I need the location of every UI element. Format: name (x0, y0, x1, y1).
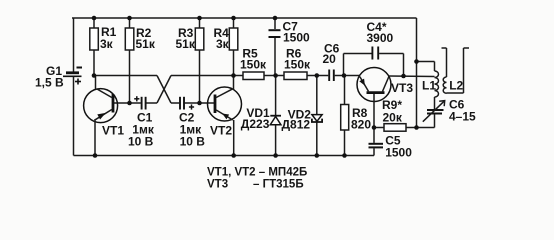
svg-text:L2: L2 (449, 79, 463, 93)
wire cross to C2 (171, 102, 179, 104)
node rail R2 (127, 16, 132, 21)
svg-text:1,5 В: 1,5 В (35, 76, 64, 90)
svg-text:150к: 150к (284, 58, 311, 72)
svg-text:Д812: Д812 (282, 117, 311, 131)
node rail R4 (231, 16, 236, 21)
svg-text:51к: 51к (176, 37, 196, 51)
wire bus to VT2 collector (171, 75, 243, 77)
svg-text:10 В: 10 В (128, 135, 154, 149)
variable capacitor C6 (417, 98, 477, 128)
svg-text:VT1: VT1 (102, 124, 124, 138)
svg-text:1500: 1500 (385, 146, 412, 160)
svg-text:820: 820 (351, 118, 371, 132)
diode VD2 zener (282, 76, 323, 156)
capacitor C7 (269, 18, 311, 76)
battery G1 (35, 64, 82, 90)
svg-text:VT3: VT3 (391, 81, 413, 95)
node VT2 base (197, 101, 202, 106)
capacitor C6 coupling (323, 42, 340, 82)
node VT1 collector (92, 73, 97, 78)
wire left battery column (73, 18, 75, 156)
wire VT1 base (113, 102, 141, 104)
transistor VT1 (84, 76, 125, 156)
capacitor C2 (179, 97, 205, 149)
wire R6 to C6 (307, 75, 328, 77)
node VT1 base (127, 101, 132, 106)
resistor R1 (90, 18, 117, 76)
node rail VD1 (273, 153, 278, 158)
capacitor C5 (369, 128, 413, 160)
resistor R6 (284, 47, 311, 80)
resistor R9 (374, 98, 417, 131)
node rail R1 (92, 16, 97, 21)
svg-text:VT1, VT2 – МП42Б: VT1, VT2 – МП42Б (207, 167, 307, 179)
svg-text:3к: 3к (100, 37, 114, 51)
node VT3 emitter (342, 73, 347, 78)
note transistor types (207, 167, 307, 191)
transistor VT2 (208, 76, 242, 156)
node rail VT2 emitter (231, 153, 236, 158)
svg-text:VT2: VT2 (210, 124, 232, 138)
resistor R2 (125, 18, 156, 103)
svg-text:VT3: VT3 (207, 179, 228, 191)
svg-text:L1: L1 (422, 79, 436, 93)
wire right rail descent (416, 18, 418, 128)
inductor L2 (442, 48, 470, 93)
svg-text:20к: 20к (383, 111, 403, 125)
resistor R5 (240, 47, 267, 80)
resistor R8 (341, 76, 372, 156)
node L1 top tap (414, 59, 419, 64)
resistor R3 (176, 18, 204, 103)
wire cross-coupling diagonal A (157, 76, 171, 104)
wire collector bus VT1 (94, 75, 157, 77)
wire C2 to VT2 base (185, 102, 215, 104)
svg-text:51к: 51к (136, 37, 156, 51)
diode VD1 (241, 76, 281, 156)
svg-text:1500: 1500 (283, 31, 310, 45)
transistor VT3 (357, 68, 435, 128)
node rail C7 (273, 16, 278, 21)
svg-text:20: 20 (323, 52, 337, 66)
inductor L1 (417, 62, 439, 110)
wire bottom rail (74, 155, 375, 157)
capacitor C1 (128, 96, 155, 148)
svg-text:Д223: Д223 (241, 117, 270, 131)
node VT2 collector (231, 73, 236, 78)
node tank bottom (414, 125, 419, 130)
capacitor C4 (344, 20, 404, 76)
svg-text:– ГТ315Б: – ГТ315Б (253, 179, 304, 191)
node rail VD2 (315, 153, 320, 158)
node rail R8 (342, 153, 347, 158)
svg-text:3к: 3к (216, 37, 230, 51)
wire top rail (72, 17, 417, 19)
node C4 right (401, 74, 406, 79)
node C7 bottom (273, 73, 278, 78)
node VD2 top (315, 73, 320, 78)
node VT3 base R9 (372, 125, 377, 130)
svg-text:4–15: 4–15 (449, 110, 476, 124)
wire C1 to cross (146, 102, 157, 104)
wire R5-R6 (264, 75, 284, 77)
wire C6 to emitter node (335, 75, 360, 77)
svg-text:150к: 150к (240, 58, 267, 72)
node rail R3 (197, 16, 202, 21)
wire cross-coupling diagonal B (157, 76, 171, 104)
resistor R4 (214, 18, 238, 76)
node rail VT1 emitter (93, 153, 98, 158)
svg-text:10 В: 10 В (180, 135, 206, 149)
svg-text:3900: 3900 (367, 31, 394, 45)
